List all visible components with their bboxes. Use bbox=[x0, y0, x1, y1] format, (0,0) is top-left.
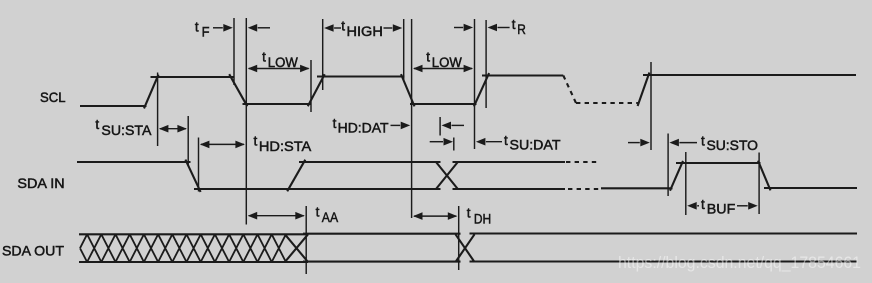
svg-text:t: t bbox=[333, 116, 337, 131]
svg-text:https://blog.csdn.net/qq_17854: https://blog.csdn.net/qq_17854661 bbox=[618, 254, 861, 272]
svg-text:F: F bbox=[202, 25, 210, 41]
svg-text:LOW: LOW bbox=[268, 55, 299, 71]
svg-text:SCL: SCL bbox=[40, 89, 66, 105]
svg-text:SU:STA: SU:STA bbox=[101, 123, 152, 139]
svg-text:HD:STA: HD:STA bbox=[259, 139, 312, 155]
svg-text:t: t bbox=[701, 197, 705, 212]
svg-text:t: t bbox=[316, 205, 320, 220]
svg-text:t: t bbox=[254, 134, 258, 149]
svg-text:AA: AA bbox=[322, 210, 339, 226]
svg-text:DH: DH bbox=[474, 212, 491, 228]
svg-text:t: t bbox=[467, 206, 471, 221]
svg-text:HIGH: HIGH bbox=[347, 24, 383, 40]
svg-text:SU:DAT: SU:DAT bbox=[510, 137, 561, 153]
svg-text:BUF: BUF bbox=[707, 202, 736, 218]
svg-text:SDA OUT: SDA OUT bbox=[2, 242, 64, 258]
svg-text:SDA IN: SDA IN bbox=[17, 175, 64, 191]
svg-text:R: R bbox=[517, 22, 526, 38]
svg-text:LOW: LOW bbox=[432, 55, 463, 71]
svg-text:t: t bbox=[426, 49, 430, 64]
svg-text:t: t bbox=[504, 133, 508, 148]
svg-text:HD:DAT: HD:DAT bbox=[338, 120, 389, 136]
svg-text:t: t bbox=[512, 17, 516, 32]
svg-text:t: t bbox=[262, 49, 266, 64]
svg-text:t: t bbox=[701, 133, 705, 148]
svg-text:t: t bbox=[95, 117, 99, 132]
svg-text:t: t bbox=[341, 19, 345, 34]
svg-text:SU:STO: SU:STO bbox=[707, 138, 759, 154]
svg-text:t: t bbox=[195, 20, 199, 35]
